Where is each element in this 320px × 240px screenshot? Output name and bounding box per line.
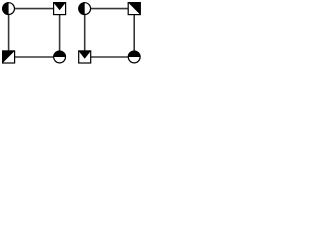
wire left edge G1 (8, 9, 10, 57)
wire right edge G2 (133, 9, 135, 57)
graph 2 (right square lattice) (78, 2, 141, 63)
node G2 bottom-right: circle top-half black (128, 51, 141, 63)
node G1 top-left: circle left-half black (2, 2, 14, 15)
node G2 top-right: square upper-right half black (128, 2, 141, 15)
node G2 top-left: circle left-half black (78, 2, 90, 15)
graph 1 (left square lattice) (2, 2, 66, 64)
node G1 bottom-right: circle top-half black (53, 51, 66, 63)
wire left edge G2 (84, 9, 86, 57)
wire top edge G2 (85, 8, 135, 10)
wire bottom edge G2 (85, 56, 135, 58)
node G1 top-right: square with down triangle (53, 2, 66, 15)
wire right edge G1 (59, 9, 61, 57)
wire top edge G1 (9, 8, 60, 10)
wire bottom edge G1 (9, 56, 60, 58)
node G2 bottom-left: square with down triangle (78, 50, 91, 63)
node G1 bottom-left: square upper-left half black (2, 50, 15, 63)
